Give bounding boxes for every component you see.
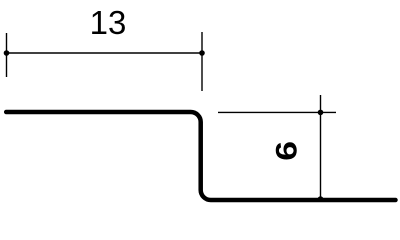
dimension 13: dimension line <box>7 52 203 54</box>
dimension 6: top extension line <box>218 111 336 113</box>
svg-text:6: 6 <box>269 141 303 161</box>
dimension 13: left extension line <box>6 33 8 77</box>
dimension 13: left end dot <box>4 50 10 56</box>
svg-text:13: 13 <box>90 4 127 41</box>
dimension 6: top dot <box>318 110 324 116</box>
profile outline (stepped sheet profile) <box>6 112 395 200</box>
dimension 6: vertical dimension line <box>320 95 322 200</box>
dimension 13: right extension line <box>201 32 203 91</box>
dimension 6: bottom dot <box>318 196 324 202</box>
dimension 13: right end dot <box>199 50 205 56</box>
